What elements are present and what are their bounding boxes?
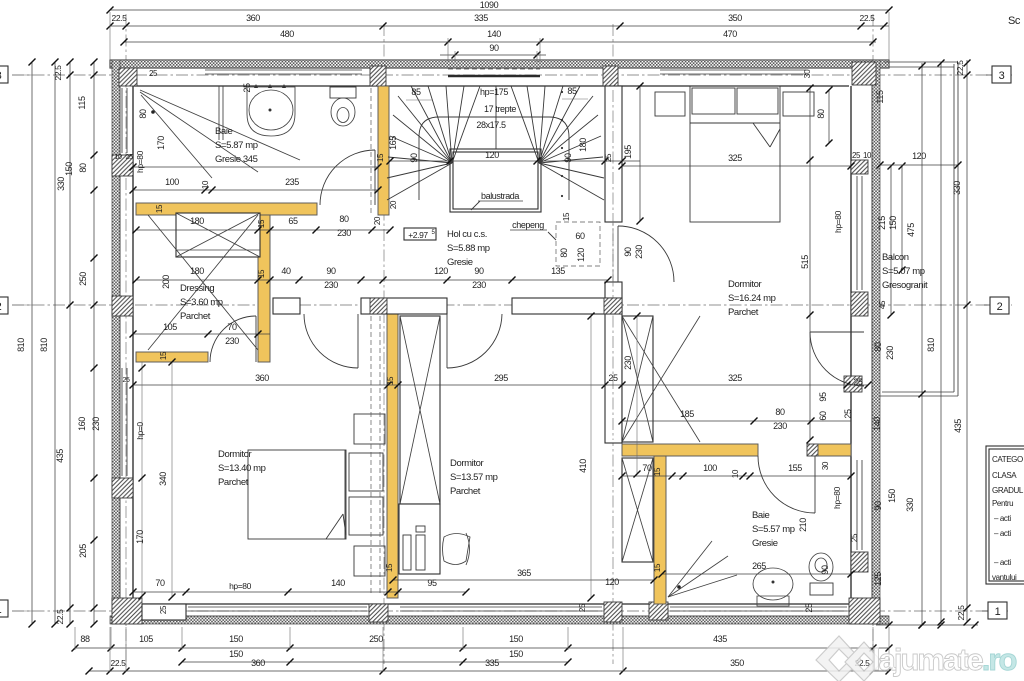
dim bedroom2 verticals <box>590 316 592 598</box>
dim row 360-295-325 <box>133 384 868 386</box>
svg-text:10: 10 <box>863 151 872 160</box>
pier top wall left of stairs <box>370 66 386 86</box>
bed bedroom3 top-right <box>690 86 780 222</box>
svg-text:22.5: 22.5 <box>956 605 966 621</box>
svg-text:350: 350 <box>728 13 742 23</box>
svg-text:80: 80 <box>339 214 349 224</box>
vertical axis left wall <box>125 14 127 668</box>
dim row below Baie wall <box>136 229 390 231</box>
svg-text:810: 810 <box>16 338 26 352</box>
exterior wall left - crosshatch strip <box>112 60 120 624</box>
svg-text:170: 170 <box>135 530 145 544</box>
svg-text:360: 360 <box>255 373 269 383</box>
bedroom3 window dim 80 arrow <box>828 90 830 143</box>
svg-text:S=16.24 mp: S=16.24 mp <box>728 293 776 304</box>
svg-text:hp=0: hp=0 <box>135 422 145 440</box>
dim 365 line <box>393 579 654 581</box>
svg-text:Dormitor: Dormitor <box>450 458 483 469</box>
svg-text:Parchet: Parchet <box>218 477 249 488</box>
svg-text:22.5: 22.5 <box>860 13 876 23</box>
stair treads fan right <box>539 163 604 200</box>
svg-text:28x17.5: 28x17.5 <box>476 120 506 130</box>
grid axis line 2 (horizontal dash-dot) <box>12 304 1012 306</box>
svg-text:470: 470 <box>723 29 737 39</box>
wall center bedroom divider (yellow) vertical <box>387 314 398 598</box>
stair treads fan left <box>387 163 452 200</box>
svg-text:70: 70 <box>642 463 652 473</box>
svg-text:S=5.07 mp: S=5.07 mp <box>882 266 925 277</box>
svg-text:– acti: – acti <box>994 529 1011 538</box>
window bottom wall bedroom2 <box>400 606 602 608</box>
window top wall Baie <box>205 69 362 71</box>
balcony railing bottom <box>882 391 954 393</box>
left dimension chain lines <box>31 62 33 624</box>
bedroom3 vertical dim line <box>809 88 811 440</box>
svg-text:810: 810 <box>926 338 936 352</box>
vertical axis stair-right wall <box>612 24 614 664</box>
svg-text:chepeng: chepeng <box>512 220 544 230</box>
svg-text:80: 80 <box>816 109 826 119</box>
svg-text:hp=175: hp=175 <box>480 87 508 97</box>
svg-text:100: 100 <box>165 177 179 187</box>
svg-text:25: 25 <box>578 603 587 612</box>
stair treads center <box>452 86 464 163</box>
stair balustrade rectangle <box>450 149 541 212</box>
svg-text:340: 340 <box>158 472 168 486</box>
svg-text:85: 85 <box>411 87 421 97</box>
toilet Baie2 <box>809 553 833 581</box>
exterior wall right - inner band <box>871 68 873 620</box>
svg-text:150: 150 <box>509 649 523 659</box>
svg-text:GRADUL: GRADUL <box>992 486 1024 495</box>
dim 265 line Baie2 <box>662 573 851 575</box>
pier left wall lower <box>112 478 133 498</box>
svg-text:25: 25 <box>123 377 130 384</box>
svg-text:Sc: Sc <box>1008 15 1021 27</box>
svg-text:180: 180 <box>190 266 204 276</box>
svg-text:15: 15 <box>562 212 571 221</box>
grid marker 2 left <box>0 297 8 314</box>
balcony width dim <box>880 164 958 166</box>
pier corridor wall C <box>604 298 622 314</box>
exterior wall bottom - crosshatch strip <box>110 616 889 624</box>
svg-text:335: 335 <box>474 13 488 23</box>
svg-text:25: 25 <box>126 154 133 161</box>
pier bottom-right corner <box>849 598 880 624</box>
svg-text:150: 150 <box>229 649 243 659</box>
svg-text:195: 195 <box>623 145 633 159</box>
svg-text:S=5.87 mp: S=5.87 mp <box>215 140 258 151</box>
bottom extension lines <box>74 627 76 650</box>
svg-text:235: 235 <box>285 177 299 187</box>
svg-text:hp=80: hp=80 <box>833 210 843 233</box>
toilet Baie top <box>330 87 356 98</box>
sink Baie top <box>247 87 295 136</box>
dim row bath2 wall <box>622 420 851 422</box>
svg-text:S=5.88 mp: S=5.88 mp <box>447 243 490 254</box>
window top wall stairs (thick glazing) <box>448 75 540 78</box>
svg-text:515: 515 <box>800 255 810 269</box>
pier right wall mid <box>844 376 862 392</box>
nightstand bedroom1 top <box>354 414 385 444</box>
svg-text:22.5: 22.5 <box>111 658 127 668</box>
svg-text:180: 180 <box>190 216 204 226</box>
window left wall hp=80 <box>121 88 123 153</box>
svg-text:435: 435 <box>55 449 65 463</box>
svg-text:15: 15 <box>386 376 395 385</box>
dim row door bedroom1 <box>133 333 270 335</box>
svg-text:210: 210 <box>798 518 808 532</box>
svg-text:Dressing: Dressing <box>180 283 214 294</box>
bottom-right corner dim line <box>876 624 978 626</box>
svg-text:230: 230 <box>472 280 486 290</box>
svg-text:Gresie: Gresie <box>447 257 473 268</box>
svg-text:15: 15 <box>257 219 266 228</box>
svg-text:Dormitor: Dormitor <box>728 279 761 290</box>
wardrobe Dressing top (crossed box) <box>176 213 260 257</box>
dim row Baie top interior <box>133 166 378 168</box>
svg-text:88: 88 <box>80 634 90 644</box>
svg-text:25: 25 <box>608 373 618 383</box>
balcony railing right <box>953 64 955 392</box>
svg-text:90: 90 <box>873 501 883 511</box>
dim bedroom3 width 325 <box>622 165 851 167</box>
svg-text:Parchet: Parchet <box>728 307 759 318</box>
svg-text:480: 480 <box>280 29 294 39</box>
svg-text:22.5: 22.5 <box>55 609 65 625</box>
svg-text:65: 65 <box>288 216 298 226</box>
svg-text:80: 80 <box>78 163 88 173</box>
svg-text:20: 20 <box>373 216 382 225</box>
svg-text:1090: 1090 <box>480 0 499 10</box>
svg-text:Gresie 345: Gresie 345 <box>215 154 258 165</box>
svg-text:120: 120 <box>485 150 499 160</box>
desk bedroom2 <box>399 504 440 574</box>
pier corridor wall B <box>370 298 387 314</box>
svg-text:125: 125 <box>873 572 883 586</box>
svg-text:90: 90 <box>409 153 419 163</box>
dimension row axis distances top <box>110 25 889 27</box>
svg-text:Parchet: Parchet <box>450 486 481 497</box>
svg-text:25: 25 <box>149 69 158 78</box>
svg-text:25: 25 <box>852 151 861 160</box>
pier top-left corner <box>119 68 137 86</box>
svg-text:15: 15 <box>653 467 662 476</box>
pier bottom wall center-left <box>369 604 388 622</box>
svg-text:80: 80 <box>559 248 569 258</box>
svg-text:Gresie: Gresie <box>752 538 778 549</box>
svg-text:25: 25 <box>804 603 814 613</box>
wall Baie south (yellow) horizontal band <box>136 203 317 215</box>
nightstand bedroom3 left <box>655 92 685 116</box>
svg-text:295: 295 <box>494 373 508 383</box>
svg-text:105: 105 <box>139 634 153 644</box>
grid marker 2 right <box>984 304 990 306</box>
door bedroom2 from hall (arc) <box>446 314 448 368</box>
svg-text:Pentru: Pentru <box>992 499 1013 508</box>
svg-text:Parchet: Parchet <box>180 311 211 322</box>
wall stairs-left (yellow) vertical <box>378 86 389 215</box>
svg-text:17 trepte: 17 trepte <box>484 104 516 114</box>
svg-text:265: 265 <box>752 561 766 571</box>
svg-text:30: 30 <box>802 69 812 78</box>
svg-text:S=13.57 mp: S=13.57 mp <box>450 472 498 483</box>
exterior wall left - inner band <box>119 68 121 620</box>
svg-text:230: 230 <box>91 417 101 431</box>
svg-text:balustrada: balustrada <box>481 191 519 201</box>
svg-text:250: 250 <box>369 634 383 644</box>
svg-text:325: 325 <box>728 153 742 163</box>
svg-text:+2.97: +2.97 <box>408 230 428 240</box>
dimension row bottom axis <box>89 670 889 672</box>
svg-text:Balcon: Balcon <box>882 252 909 263</box>
grid marker 3 right <box>986 74 992 76</box>
exterior wall bottom - inner band <box>133 603 849 605</box>
svg-text:15: 15 <box>257 269 266 278</box>
svg-text:Dormitor: Dormitor <box>218 449 251 460</box>
svg-text:230: 230 <box>225 336 239 346</box>
svg-text:10: 10 <box>731 469 740 478</box>
sink Baie2 <box>753 568 793 600</box>
window bottom wall bedroom1 <box>188 606 367 608</box>
door bedroom3 from hall (arc) <box>617 226 619 282</box>
door Dressing (arc) <box>255 316 257 362</box>
left extension stubs <box>12 74 32 76</box>
bed bedroom1 bottom-left <box>248 450 346 539</box>
chepeng dashed hatch rectangle <box>556 222 600 266</box>
svg-text:1: 1 <box>995 606 1001 618</box>
closet crossed box lower <box>622 458 653 562</box>
svg-text:25: 25 <box>159 605 168 614</box>
svg-text:S=13.40 mp: S=13.40 mp <box>218 463 266 474</box>
svg-text:25: 25 <box>853 377 863 387</box>
svg-text:S=5.57 mp: S=5.57 mp <box>752 524 795 535</box>
nightstand bedroom3 right <box>783 92 814 116</box>
pier right wall lower <box>851 552 868 572</box>
dimension row bottom 2 <box>182 661 568 663</box>
corridor south wall white segment B <box>361 298 447 314</box>
pier top wall right of stairs <box>603 66 618 86</box>
svg-text:80: 80 <box>873 342 883 352</box>
svg-text:230: 230 <box>773 421 787 431</box>
svg-text:45: 45 <box>878 300 887 309</box>
svg-text:20: 20 <box>389 200 398 209</box>
svg-text:22.5: 22.5 <box>112 13 128 23</box>
svg-text:115: 115 <box>77 96 87 110</box>
svg-text:15: 15 <box>385 563 394 572</box>
svg-text:140: 140 <box>487 29 501 39</box>
svg-text:Baie: Baie <box>215 126 233 137</box>
pier left wall upper <box>112 155 133 176</box>
dim row bath2 interior <box>622 475 851 477</box>
svg-text:lajumate.ro: lajumate.ro <box>872 642 1016 677</box>
svg-text:205: 205 <box>78 544 88 558</box>
note box CATEGORIA <box>986 446 1024 584</box>
wall stairs-right (white) vertical lower <box>605 282 622 443</box>
svg-text:155: 155 <box>788 463 802 473</box>
grid marker 3 left <box>0 66 8 83</box>
svg-text:360: 360 <box>246 13 260 23</box>
pier bath2 north hatch block <box>807 444 818 456</box>
roof projection dashed lines hall <box>370 316 372 595</box>
vertical axis right wall <box>872 14 874 668</box>
svg-text:435: 435 <box>713 634 727 644</box>
wall bath2 west (yellow) stem vertical <box>654 456 666 604</box>
level label +2.975 <box>404 228 436 240</box>
window top wall bedroom <box>660 69 806 71</box>
svg-text:410: 410 <box>578 459 588 473</box>
pier left wall at axis 2 <box>112 296 133 316</box>
svg-text:150: 150 <box>229 634 243 644</box>
corridor south wall white segment A (door jamb) <box>273 298 300 314</box>
svg-text:70: 70 <box>155 578 165 588</box>
svg-text:160: 160 <box>77 417 87 431</box>
svg-text:215: 215 <box>877 216 887 230</box>
pier right wall upper <box>851 160 868 174</box>
svg-text:10: 10 <box>115 154 122 161</box>
svg-text:170: 170 <box>156 136 166 150</box>
svg-text:25: 25 <box>850 533 859 542</box>
exterior wall top - inner band <box>110 67 889 69</box>
svg-text:325: 325 <box>728 373 742 383</box>
svg-text:150: 150 <box>887 489 897 503</box>
chair bedroom2 <box>443 534 471 565</box>
closet hall crossed box upper <box>622 316 653 442</box>
dim row Dressing <box>136 279 608 281</box>
svg-text:90: 90 <box>563 153 573 163</box>
svg-text:15: 15 <box>155 204 164 213</box>
white jamb bottom wall left <box>142 604 186 620</box>
pier bottom wall center <box>604 602 622 622</box>
svg-text:230: 230 <box>337 228 351 238</box>
svg-text:185: 185 <box>680 409 694 419</box>
svg-text:90: 90 <box>326 266 336 276</box>
svg-text:120: 120 <box>605 577 619 587</box>
door bedroom1 from hall (arc) <box>357 314 359 368</box>
svg-text:335: 335 <box>485 658 499 668</box>
svg-text:90: 90 <box>474 266 484 276</box>
svg-text:230: 230 <box>324 280 338 290</box>
svg-text:60: 60 <box>575 231 585 241</box>
svg-text:60: 60 <box>818 411 828 421</box>
svg-text:CATEGO: CATEGO <box>992 455 1023 464</box>
shower lines Baie2 <box>668 541 712 597</box>
dimension row total 1090 <box>110 9 889 11</box>
svg-text:120: 120 <box>912 151 926 161</box>
svg-text:350: 350 <box>730 658 744 668</box>
svg-text:230: 230 <box>623 356 633 370</box>
svg-text:hp=80: hp=80 <box>135 150 145 173</box>
svg-text:140: 140 <box>872 417 882 431</box>
dim bedroom1 verticals <box>141 362 143 604</box>
svg-text:22.5: 22.5 <box>53 65 63 81</box>
svg-text:330: 330 <box>905 498 915 512</box>
svg-text:S=3.60 mp: S=3.60 mp <box>180 297 223 308</box>
stair handrail rounded U <box>419 117 569 200</box>
svg-text:95: 95 <box>818 392 828 402</box>
svg-text:80: 80 <box>775 407 785 417</box>
dim row bottom interior hp=80 <box>133 591 466 593</box>
svg-text:Baie: Baie <box>752 510 770 521</box>
vertical axis stair-left wall <box>383 24 385 664</box>
svg-text:vantului: vantului <box>992 573 1017 582</box>
svg-text:135: 135 <box>551 266 565 276</box>
door Baie top (arc) <box>374 150 376 205</box>
svg-text:80: 80 <box>138 109 148 119</box>
svg-text:– acti: – acti <box>994 514 1011 523</box>
svg-text:165: 165 <box>388 136 398 150</box>
svg-text:40: 40 <box>281 266 291 276</box>
wall stairs-right (white) vertical upper <box>605 86 622 222</box>
svg-text:365: 365 <box>517 568 531 578</box>
svg-text:230: 230 <box>634 245 644 259</box>
pier top-right corner <box>852 62 876 85</box>
svg-text:15: 15 <box>159 351 168 360</box>
svg-text:CLASA: CLASA <box>992 471 1017 480</box>
svg-text:95: 95 <box>427 578 437 588</box>
right dimension chain lines <box>890 166 892 315</box>
svg-text:250: 250 <box>78 272 88 286</box>
svg-text:15: 15 <box>653 563 662 572</box>
svg-text:22.5: 22.5 <box>955 60 965 76</box>
grid marker 1 left <box>0 600 8 617</box>
svg-text:230: 230 <box>885 346 895 360</box>
svg-text:115: 115 <box>875 90 885 104</box>
dim stairs 195 vertical <box>639 86 641 221</box>
svg-text:– acti: – acti <box>994 558 1011 567</box>
svg-text:hp=80: hp=80 <box>229 581 252 591</box>
svg-text:475: 475 <box>906 223 916 237</box>
svg-text:25: 25 <box>242 83 252 93</box>
svg-text:150: 150 <box>64 162 74 176</box>
corridor south wall white segment C <box>512 298 622 314</box>
window left wall hp=0 <box>121 368 123 476</box>
svg-text:330: 330 <box>952 181 962 195</box>
door balcony (arc) <box>810 331 864 333</box>
svg-text:100: 100 <box>703 463 717 473</box>
svg-text:150: 150 <box>509 634 523 644</box>
wall bath2 north (yellow) horizontal <box>622 444 758 456</box>
watermark logo lajumate <box>816 636 882 681</box>
svg-text:70: 70 <box>227 322 237 332</box>
nightstand bedroom1 bottom <box>354 546 385 576</box>
svg-text:90: 90 <box>623 247 633 257</box>
shower lines Baie top <box>140 90 300 160</box>
svg-text:30: 30 <box>821 461 830 470</box>
svg-text:330: 330 <box>56 177 66 191</box>
svg-text:3: 3 <box>999 70 1005 82</box>
svg-text:140: 140 <box>331 578 345 588</box>
balustrada label leader <box>471 201 480 210</box>
shower screen Baie top <box>218 86 220 140</box>
svg-text:150: 150 <box>888 216 898 230</box>
pier bottom wall at stem <box>649 602 668 620</box>
wall Dressing east (yellow) vertical <box>258 215 270 362</box>
stair section dots <box>561 91 563 93</box>
dimension row openings top <box>124 41 876 43</box>
svg-text:hp=80: hp=80 <box>832 486 842 509</box>
door Baie2 (arc) <box>814 456 816 513</box>
grid marker 1 right <box>982 610 988 612</box>
pier right wall at axis 2 <box>851 292 868 316</box>
exterior wall top - crosshatch strip <box>110 60 889 68</box>
window right wall hp=80 lower <box>856 460 858 550</box>
dimension row bottom 1 <box>75 647 889 649</box>
svg-text:15: 15 <box>376 153 385 162</box>
svg-text:90: 90 <box>489 43 499 53</box>
wall Dressing south (yellow) <box>136 352 208 362</box>
top extension lines <box>109 12 111 60</box>
